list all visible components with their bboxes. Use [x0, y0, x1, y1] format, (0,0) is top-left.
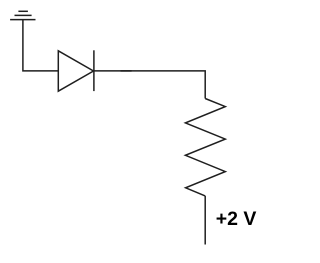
diode D1 [58, 50, 94, 91]
resistor R1 [185, 99, 225, 196]
ground [10, 11, 35, 19]
wire [94, 71, 205, 99]
wire [121, 70, 132, 72]
svg-text:+2 V: +2 V [216, 208, 257, 230]
wire [204, 196, 206, 245]
wire [23, 20, 58, 71]
